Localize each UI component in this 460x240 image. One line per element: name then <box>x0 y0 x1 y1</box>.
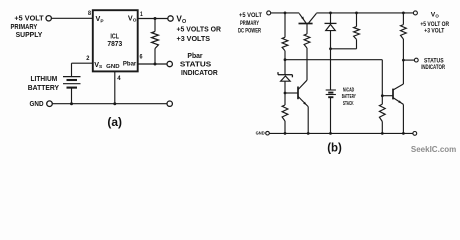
svg-text:STATUS: STATUS <box>424 58 444 64</box>
svg-text:1: 1 <box>140 11 143 18</box>
svg-text:7873: 7873 <box>107 39 122 48</box>
svg-text:STACK: STACK <box>343 101 354 107</box>
svg-text:DC POWER: DC POWER <box>238 28 261 34</box>
svg-text:GND: GND <box>106 64 119 70</box>
svg-text:2: 2 <box>86 55 89 62</box>
svg-text:SeekIC.com: SeekIC.com <box>411 145 456 154</box>
svg-text:SUPPLY: SUPPLY <box>16 30 43 39</box>
svg-text:BATTERY: BATTERY <box>342 94 356 100</box>
svg-text:INDICATOR: INDICATOR <box>181 68 218 77</box>
svg-text:GND: GND <box>30 99 45 108</box>
svg-text:LITHIUM: LITHIUM <box>31 74 58 83</box>
svg-text:+5 VOLT: +5 VOLT <box>239 12 262 19</box>
svg-text:+3 VOLTS: +3 VOLTS <box>177 34 211 43</box>
svg-text:BATTERY: BATTERY <box>28 83 59 92</box>
svg-text:(b): (b) <box>327 142 342 154</box>
svg-text:PRIMARY: PRIMARY <box>240 21 259 27</box>
svg-text:(a): (a) <box>107 117 122 129</box>
svg-text:STATUS: STATUS <box>180 59 211 68</box>
svg-text:4: 4 <box>117 75 121 82</box>
svg-text:O: O <box>435 14 439 19</box>
svg-text:8: 8 <box>88 10 91 17</box>
svg-text:INDICATOR: INDICATOR <box>421 65 445 71</box>
svg-text:6: 6 <box>140 53 143 60</box>
svg-text:GND: GND <box>256 131 265 137</box>
svg-text:O: O <box>133 18 137 24</box>
svg-text:+3 VOLT: +3 VOLT <box>424 28 444 35</box>
svg-text:NiCAD: NiCAD <box>343 87 355 93</box>
svg-text:+5 VOLTS OR: +5 VOLTS OR <box>177 24 222 33</box>
svg-text:Pbar: Pbar <box>123 61 137 68</box>
